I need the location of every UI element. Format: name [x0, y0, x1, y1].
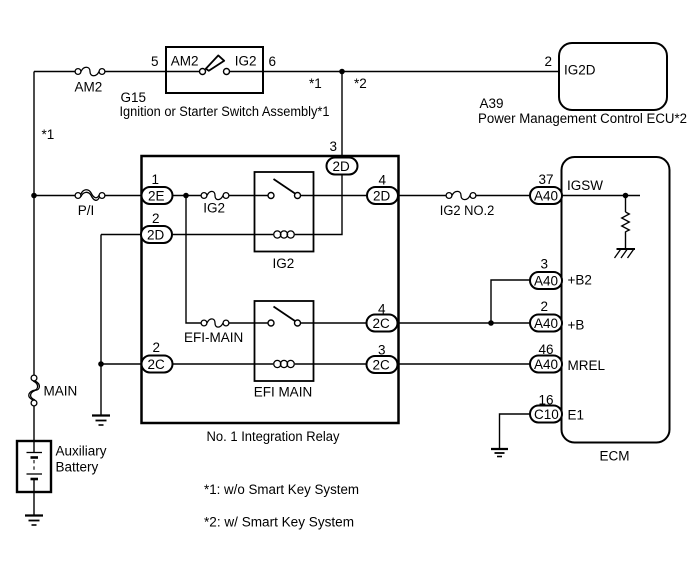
svg-text:+B2: +B2: [568, 273, 592, 288]
battery Auxiliary Battery box: [17, 441, 51, 492]
wire vertical from row A junction to EFI-MAIN fuse: [186, 196, 201, 324]
svg-text:A40: A40: [534, 189, 558, 204]
svg-text:3: 3: [330, 139, 338, 154]
svg-text:16: 16: [539, 393, 554, 408]
svg-text:G15: G15: [121, 90, 147, 105]
svg-text:1: 1: [152, 172, 160, 187]
svg-text:3: 3: [541, 257, 549, 272]
switch G15 lever: [206, 55, 224, 70]
wire row A: IG2 fuse to IG2 relay contact: [229, 195, 268, 197]
relay EFI MAIN lever: [274, 307, 296, 322]
connector pin A40 +B2 (pin 3): [530, 257, 562, 290]
wire vertical coil ground x=101: [100, 235, 102, 416]
connector pin 2C (pin 4): [367, 302, 398, 332]
svg-text:IG2: IG2: [273, 256, 295, 271]
wire row C: EFI-MAIN fuse to EFI relay contact: [229, 322, 268, 324]
svg-text:2E: 2E: [148, 189, 165, 204]
fuse EFI-MAIN: [201, 319, 229, 327]
wire battery to ground: [33, 479, 35, 515]
battery plates: [27, 453, 43, 480]
connector pin A40 MREL (pin 46): [530, 342, 562, 373]
svg-text:2D: 2D: [333, 159, 351, 174]
relay IG2 lever: [274, 179, 296, 194]
relay IG2 coil: [274, 231, 295, 238]
svg-text:4: 4: [378, 302, 386, 317]
svg-text:2: 2: [153, 340, 161, 355]
relay IG2 inner box: [255, 172, 314, 252]
relay EFI MAIN coil: [274, 360, 295, 367]
ECU A39 box: [559, 43, 667, 110]
fuse AM2: [75, 67, 105, 76]
wire resistor branch: [625, 196, 627, 213]
connector pin A40 +B (pin 2): [530, 299, 562, 332]
svg-text:2: 2: [545, 54, 553, 69]
svg-text:2: 2: [541, 299, 549, 314]
wire left battery rail vertical: [33, 72, 35, 376]
wire row C: EFI relay contact to +B pin: [301, 322, 531, 324]
ECM box: [562, 157, 670, 443]
wire G15 box to A39 IG2D pin: [263, 71, 559, 73]
wire row D: EFI coil to A40 MREL pin: [295, 363, 530, 365]
svg-text:Auxiliary: Auxiliary: [56, 444, 107, 459]
switch G15 contact IG2: [224, 69, 230, 75]
svg-text:5: 5: [151, 54, 159, 69]
junction node IGSW resistor: [623, 193, 629, 199]
switch G15 ignition switch box: [166, 47, 263, 93]
fuse IG2 NO.2: [446, 191, 476, 199]
svg-text:AM2: AM2: [171, 54, 199, 69]
svg-text:*2: *2: [354, 76, 367, 91]
relay IG2 contact right: [295, 193, 301, 199]
wire row A: 2E pin to IG2 fuse: [173, 195, 202, 197]
svg-text:2D: 2D: [373, 189, 391, 204]
junction node coil ground: [98, 361, 104, 367]
wire IGSW inside ECM: [562, 195, 641, 197]
wire row A: rail to P/I link: [34, 195, 75, 197]
wire top bus from battery rail to ignition switch: [34, 71, 75, 73]
svg-text:4: 4: [379, 173, 387, 188]
svg-text:3: 3: [378, 343, 386, 358]
fuse IG2: [201, 191, 229, 199]
svg-text:A40: A40: [534, 316, 558, 331]
svg-text:IG2D: IG2D: [564, 63, 596, 78]
connector pin 2E (pin 1): [142, 172, 173, 204]
svg-text:46: 46: [539, 342, 554, 357]
wire row A: IG2 relay contact to IG2 NO.2 fuse: [301, 195, 447, 197]
svg-text:EFI-MAIN: EFI-MAIN: [184, 330, 243, 345]
connector pin 2C (pin 2): [142, 340, 173, 373]
wire row A: P/I link to 2E pin: [105, 195, 142, 197]
svg-text:6: 6: [269, 54, 277, 69]
svg-text:C10: C10: [534, 407, 559, 422]
svg-text:No. 1 Integration Relay: No. 1 Integration Relay: [207, 429, 340, 444]
ground for ECM E1: [491, 449, 508, 457]
svg-text:2D: 2D: [147, 228, 165, 243]
svg-text:A40: A40: [534, 274, 558, 289]
fusible link MAIN: [29, 375, 40, 406]
junction node 2E branch: [183, 193, 189, 199]
svg-text:A40: A40: [534, 357, 558, 372]
connector pin C10 E1 (pin 16): [530, 393, 562, 423]
wire +B2 branch: [491, 280, 530, 323]
svg-text:MREL: MREL: [568, 358, 606, 373]
svg-text:Battery: Battery: [56, 460, 99, 475]
junction node rail/P-I: [31, 193, 37, 199]
svg-text:Ignition or Starter Switch Ass: Ignition or Starter Switch Assembly*1: [120, 104, 330, 119]
svg-text:2C: 2C: [373, 358, 391, 373]
relay EFI MAIN inner box: [255, 301, 314, 381]
svg-text:P/I: P/I: [78, 203, 95, 218]
ground below battery: [25, 516, 43, 526]
resistor pull-down in ECM: [622, 212, 630, 232]
connector pin 2C (pin 3): [367, 343, 398, 374]
ground chassis style under resistor: [615, 249, 636, 258]
svg-text:EFI MAIN: EFI MAIN: [254, 385, 313, 400]
svg-text:37: 37: [539, 172, 554, 187]
svg-text:*2: w/ Smart Key System: *2: w/ Smart Key System: [204, 514, 354, 529]
connector pin 2D (pin 4): [367, 173, 398, 205]
relay EFI MAIN contact right: [295, 320, 301, 326]
svg-text:+B: +B: [568, 318, 585, 333]
wire junction to 2D pin3 vertical and IG2 coil return: [295, 72, 342, 235]
relay EFI MAIN contact left: [268, 320, 274, 326]
ground for relay coils: [92, 416, 110, 426]
svg-text:IG2: IG2: [235, 54, 257, 69]
connector pin 2D (pin 3): [327, 139, 358, 175]
svg-text:AM2: AM2: [75, 80, 103, 95]
svg-text:IGSW: IGSW: [567, 178, 603, 193]
wire E1 to ground: [500, 414, 531, 449]
wire row A: IG2 NO.2 fuse to A40 IGSW pin: [476, 195, 530, 197]
connector pin A40 IGSW (pin 37): [530, 172, 562, 204]
wire switch contact to G15 box right: [229, 71, 263, 73]
relay IG2 contact left: [268, 193, 274, 199]
svg-text:E1: E1: [568, 408, 585, 423]
junction node +B branch: [488, 320, 494, 326]
junction node top wire *2: [339, 69, 345, 75]
wire MAIN link to battery box: [33, 406, 35, 452]
fusible link P/I: [75, 190, 105, 201]
svg-text:A39: A39: [480, 96, 504, 111]
connector pin 2D (pin 2): [141, 211, 172, 243]
svg-text:*1: *1: [42, 127, 55, 142]
wire row D: ground riser to EFI coil: [101, 363, 273, 365]
switch G15 contact AM2: [200, 69, 206, 75]
svg-text:2C: 2C: [373, 316, 391, 331]
svg-text:IG2: IG2: [203, 201, 225, 216]
svg-text:*1: *1: [309, 76, 322, 91]
svg-text:MAIN: MAIN: [44, 384, 78, 399]
svg-text:2: 2: [152, 211, 160, 226]
svg-text:Power Management Control ECU*2: Power Management Control ECU*2: [478, 111, 687, 126]
svg-text:*1: w/o Smart Key System: *1: w/o Smart Key System: [204, 482, 359, 497]
svg-text:ECM: ECM: [600, 449, 630, 464]
wire inside G15 box to switch contact: [166, 71, 200, 73]
svg-text:2C: 2C: [148, 357, 166, 372]
relay box No.1 Integration Relay: [142, 156, 399, 423]
wire AM2 fuse to G15 box: [105, 71, 166, 73]
wire 2D pin2 row to IG2 coil: [101, 234, 273, 236]
svg-text:IG2 NO.2: IG2 NO.2: [440, 203, 495, 218]
